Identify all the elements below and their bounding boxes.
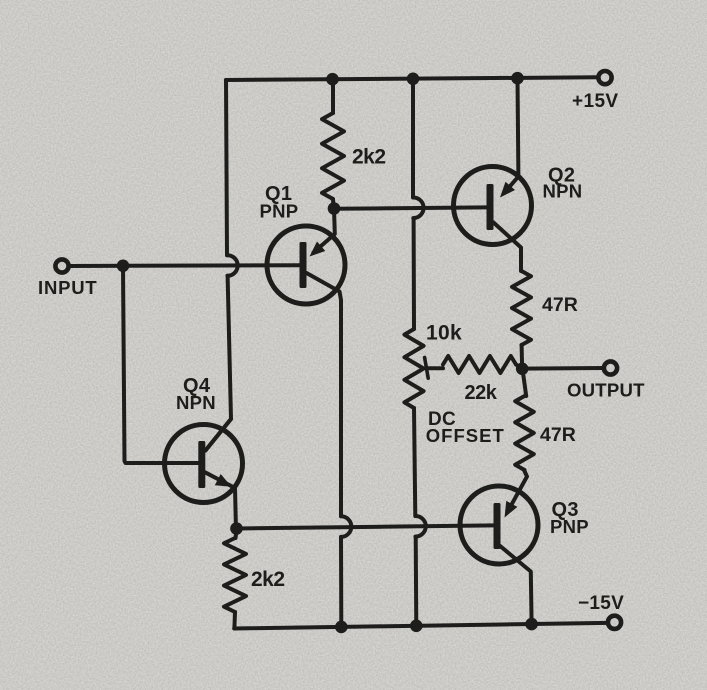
svg-text:10k: 10k	[426, 322, 462, 345]
svg-text:PNP: PNP	[550, 516, 589, 537]
svg-text:OFFSET: OFFSET	[426, 425, 505, 446]
svg-text:NPN: NPN	[543, 181, 583, 202]
svg-text:2k2: 2k2	[251, 568, 285, 591]
svg-text:−15V: −15V	[578, 593, 624, 614]
svg-text:INPUT: INPUT	[38, 277, 98, 298]
svg-text:NPN: NPN	[176, 392, 216, 413]
svg-text:+15V: +15V	[572, 91, 619, 112]
svg-text:2k2: 2k2	[352, 146, 386, 169]
svg-text:OUTPUT: OUTPUT	[567, 380, 645, 401]
svg-text:22k: 22k	[465, 382, 498, 404]
svg-text:PNP: PNP	[260, 201, 299, 222]
svg-text:47R: 47R	[542, 294, 578, 316]
svg-text:47R: 47R	[540, 424, 576, 446]
